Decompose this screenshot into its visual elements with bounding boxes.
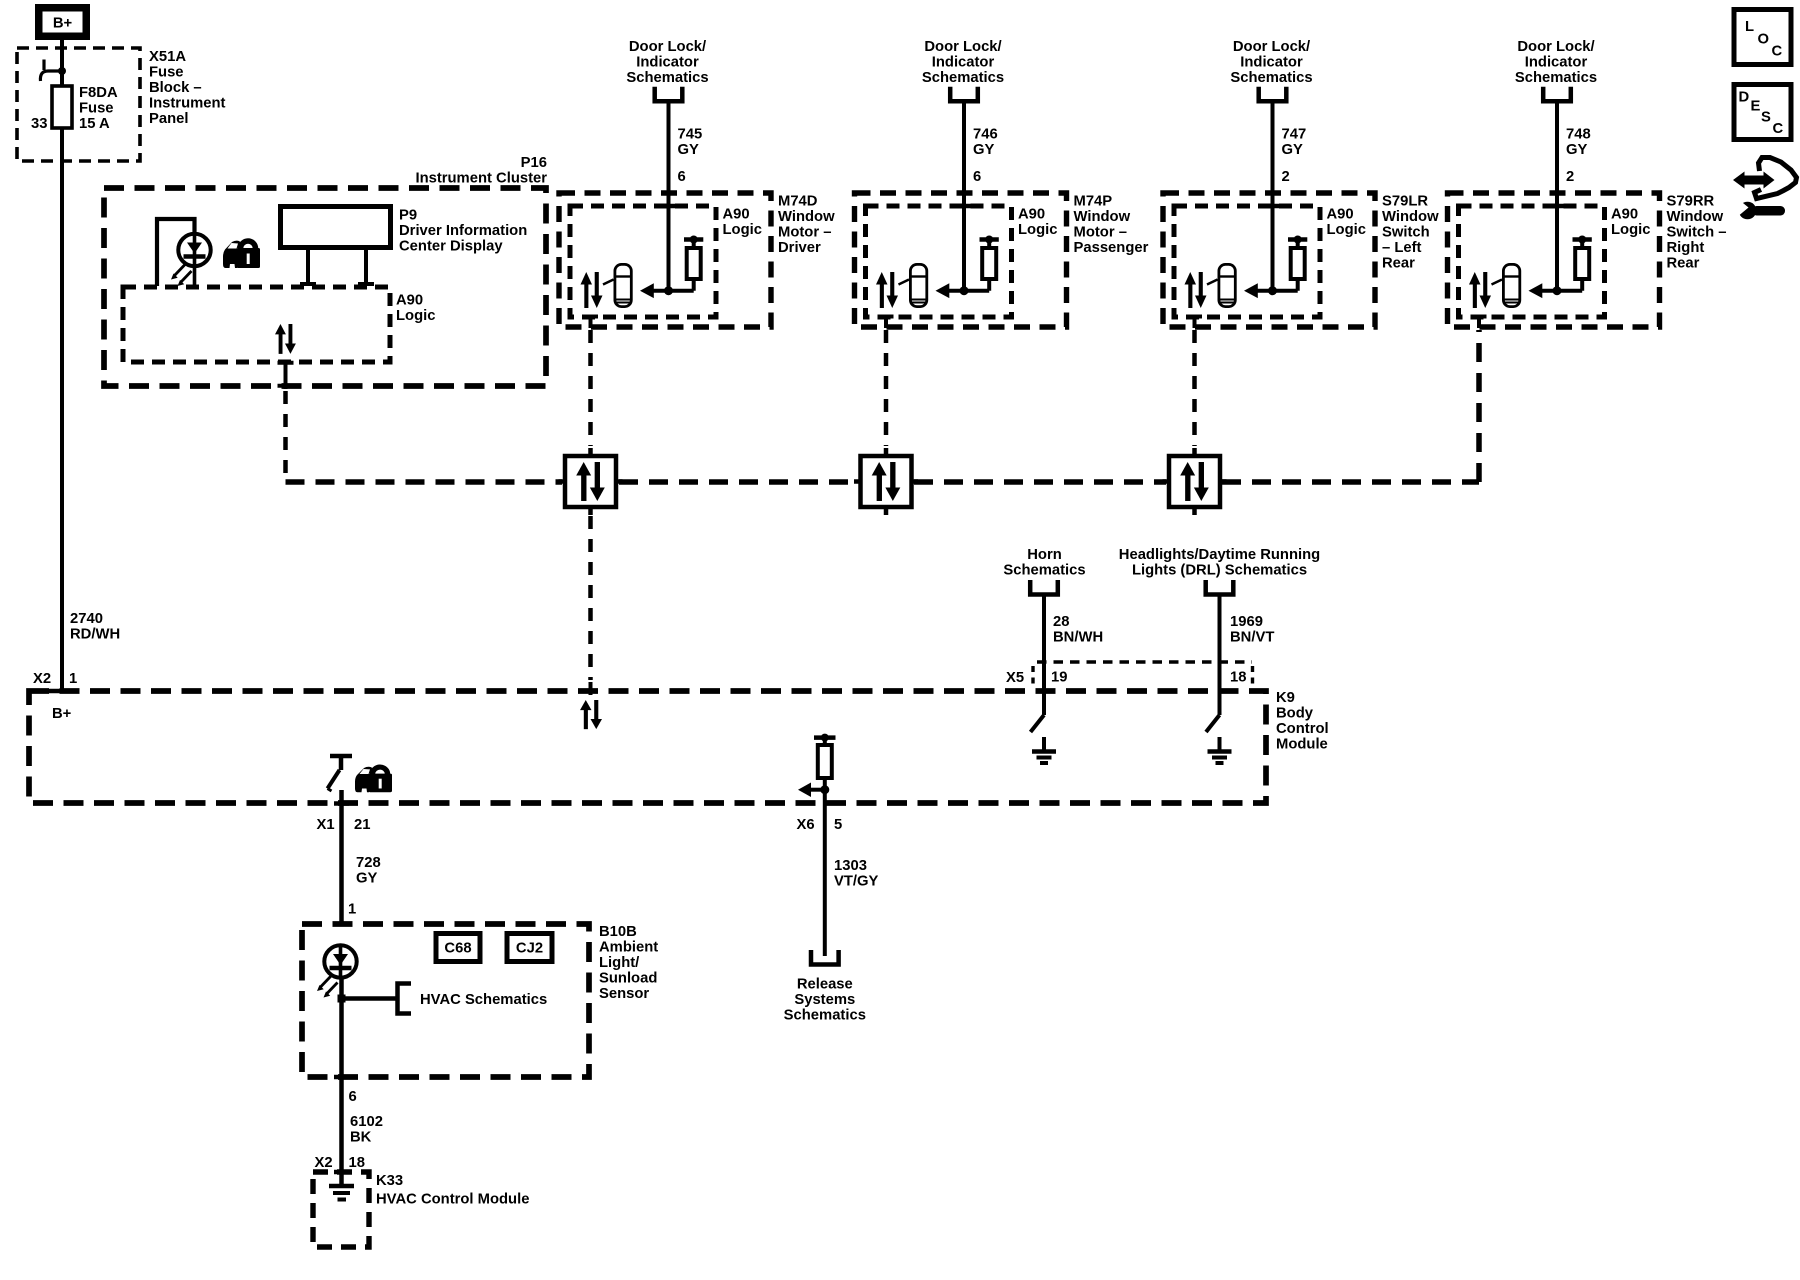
bus arrow box 1 <box>559 448 623 515</box>
svg-text:Indicator: Indicator <box>932 55 995 71</box>
HVAC schematics side-bracket <box>398 984 412 1014</box>
svg-text:2: 2 <box>1282 169 1290 185</box>
svg-text:C68: C68 <box>444 941 471 957</box>
svg-text:S79LR: S79LR <box>1382 194 1428 210</box>
stub wire through P16 boundary <box>284 362 288 389</box>
svg-text:Horn: Horn <box>1027 547 1062 563</box>
dashed net: P16 to serial data bus <box>283 391 288 479</box>
svg-text:Instrument: Instrument <box>149 96 226 112</box>
svg-text:Motor –: Motor – <box>1074 225 1127 241</box>
CJ2 RPO tag <box>507 934 552 962</box>
svg-text:Release: Release <box>797 977 853 993</box>
svg-text:Door Lock/: Door Lock/ <box>924 39 1001 55</box>
svg-text:21: 21 <box>354 817 370 833</box>
fuse block clip symbol <box>40 60 62 82</box>
svg-text:B10B: B10B <box>599 924 637 940</box>
svg-text:2740: 2740 <box>70 611 103 627</box>
wire: BCM X1-21 to sensor, circuit 728 <box>339 790 344 924</box>
sensor photodiode <box>317 945 357 997</box>
dashed drops from branch boxes <box>591 330 1195 446</box>
svg-text:Logic: Logic <box>723 222 762 238</box>
svg-text:D: D <box>1739 90 1750 106</box>
svg-text:28: 28 <box>1053 614 1069 630</box>
wire circuit 6102 to K33 <box>339 1077 344 1184</box>
svg-text:GY: GY <box>678 142 700 158</box>
svg-text:CJ2: CJ2 <box>516 941 543 957</box>
display P9 box <box>281 207 391 248</box>
svg-text:1969: 1969 <box>1230 614 1263 630</box>
svg-text:X2: X2 <box>33 671 51 687</box>
svg-text:GY: GY <box>1282 142 1304 158</box>
svg-text:Driver Information: Driver Information <box>399 223 527 239</box>
svg-text:Ambient: Ambient <box>599 940 658 956</box>
svg-text:Schematics: Schematics <box>626 70 708 86</box>
svg-text:Center Display: Center Display <box>399 239 503 255</box>
pin tick at BCM boundary <box>46 689 62 694</box>
svg-text:Indicator: Indicator <box>1240 55 1303 71</box>
svg-text:Schematics: Schematics <box>1515 70 1597 86</box>
svg-text:Systems: Systems <box>794 992 855 1008</box>
svg-text:Right: Right <box>1667 240 1705 256</box>
svg-text:Lights (DRL) Schematics: Lights (DRL) Schematics <box>1132 563 1307 579</box>
wire: B+ to fuse F8DA to BCM X2-1, circuit 2740 <box>60 40 64 691</box>
svg-text:A90: A90 <box>723 207 750 223</box>
inline connector X5 dotted line <box>1037 660 1252 663</box>
svg-text:B+: B+ <box>52 706 72 722</box>
photo sensor diode in cluster <box>171 234 211 286</box>
svg-text:728: 728 <box>356 855 381 871</box>
svg-text:Motor –: Motor – <box>778 225 831 241</box>
svg-text:Body: Body <box>1276 706 1314 722</box>
part locator icon: arrows, car, wrench <box>1733 158 1797 220</box>
svg-text:Switch: Switch <box>1382 225 1430 241</box>
instrument cluster P16 dashed box <box>104 188 546 386</box>
svg-text:A90: A90 <box>396 293 423 309</box>
svg-text:Rear: Rear <box>1667 256 1700 272</box>
svg-text:Rear: Rear <box>1382 256 1415 272</box>
release systems off-page bracket <box>811 950 839 965</box>
svg-text:Headlights/Daytime Running: Headlights/Daytime Running <box>1119 547 1320 563</box>
fuse block X51A dashed box <box>17 48 140 161</box>
svg-text:Fuse: Fuse <box>149 65 184 81</box>
svg-text:O: O <box>1758 32 1770 48</box>
svg-text:C: C <box>1772 44 1783 60</box>
svg-text:Schematics: Schematics <box>1003 563 1085 579</box>
svg-text:A90: A90 <box>1611 207 1638 223</box>
svg-text:C: C <box>1773 121 1784 137</box>
DRL driver switch inside BCM <box>1206 715 1220 732</box>
svg-text:Switch –: Switch – <box>1667 225 1727 241</box>
svg-text:– Left: – Left <box>1382 240 1422 256</box>
svg-text:GY: GY <box>1566 142 1588 158</box>
DESC legend box <box>1734 85 1791 140</box>
svg-text:RD/WH: RD/WH <box>70 627 120 643</box>
svg-text:Module: Module <box>1276 737 1328 753</box>
svg-text:Window: Window <box>1074 209 1131 225</box>
svg-text:6: 6 <box>678 169 686 185</box>
svg-text:BK: BK <box>350 1130 372 1146</box>
svg-text:P16: P16 <box>521 155 547 171</box>
svg-text:Fuse: Fuse <box>79 101 114 117</box>
svg-text:A90: A90 <box>1018 207 1045 223</box>
bus arrow box 2 <box>854 448 918 515</box>
svg-text:1: 1 <box>348 902 356 918</box>
horn driver switch inside BCM <box>1031 715 1045 732</box>
svg-text:Light/: Light/ <box>599 955 639 971</box>
svg-text:6: 6 <box>349 1089 357 1105</box>
svg-text:M74D: M74D <box>778 194 818 210</box>
svg-text:L: L <box>1745 19 1754 35</box>
HVAC control module K33 dashed box <box>313 1172 369 1247</box>
svg-text:33: 33 <box>31 116 47 132</box>
LOC legend box <box>1734 10 1791 65</box>
svg-text:BN/VT: BN/VT <box>1230 630 1274 646</box>
ground (DRL output) <box>1208 737 1232 763</box>
S79RR window switch right rear module graphics <box>1448 87 1660 328</box>
svg-text:Panel: Panel <box>149 111 188 127</box>
tick at B10B bottom <box>334 1075 349 1080</box>
svg-text:748: 748 <box>1566 127 1591 143</box>
M74D window motor driver module graphics <box>559 87 771 328</box>
dimmer switch lever icon in BCM <box>328 756 353 791</box>
svg-text:19: 19 <box>1051 670 1067 686</box>
svg-text:Logic: Logic <box>396 308 435 324</box>
svg-text:18: 18 <box>1230 670 1246 686</box>
svg-text:K9: K9 <box>1276 690 1295 706</box>
svg-text:S: S <box>1761 110 1771 126</box>
wire staple inside P16 <box>157 219 195 286</box>
svg-text:X51A: X51A <box>149 49 186 65</box>
svg-text:Window: Window <box>778 209 835 225</box>
svg-text:M74P: M74P <box>1074 194 1113 210</box>
S79LR window switch left rear module graphics <box>1163 87 1375 328</box>
ambient light sensor B10B dashed box <box>302 924 589 1077</box>
svg-text:X2: X2 <box>315 1155 333 1171</box>
svg-text:HVAC Schematics: HVAC Schematics <box>420 992 547 1008</box>
svg-text:E: E <box>1751 99 1761 115</box>
svg-text:Logic: Logic <box>1327 222 1366 238</box>
svg-text:X6: X6 <box>797 817 815 833</box>
svg-text:Indicator: Indicator <box>1525 55 1588 71</box>
svg-text:Schematics: Schematics <box>1230 70 1312 86</box>
svg-text:Door Lock/: Door Lock/ <box>1517 39 1594 55</box>
svg-text:K33: K33 <box>376 1173 403 1189</box>
fuse F8DA 15A <box>52 86 72 128</box>
svg-text:15 A: 15 A <box>79 116 110 132</box>
svg-text:X5: X5 <box>1006 670 1024 686</box>
svg-text:Logic: Logic <box>1018 222 1057 238</box>
wire: BCM X6-5 to release systems, circuit 1303 <box>823 790 827 956</box>
svg-text:Sensor: Sensor <box>599 986 649 1002</box>
svg-text:747: 747 <box>1282 127 1307 143</box>
M74P window motor passenger module graphics <box>855 87 1067 328</box>
svg-text:Driver: Driver <box>778 240 821 256</box>
svg-text:Window: Window <box>1667 209 1724 225</box>
A90 logic box in P16 <box>123 287 390 362</box>
wire to HVAC tap <box>339 978 344 1077</box>
up-down arrows at BCM bus input <box>580 700 602 729</box>
svg-text:S79RR: S79RR <box>1667 194 1715 210</box>
svg-text:Control: Control <box>1276 721 1329 737</box>
svg-text:P9: P9 <box>399 208 417 224</box>
dashed net: bus to BCM <box>588 516 593 680</box>
svg-text:Logic: Logic <box>1611 222 1650 238</box>
wire 28 BN/WH <box>1042 596 1046 715</box>
dashed serial data bus <box>286 330 1480 482</box>
svg-text:Schematics: Schematics <box>784 1008 866 1024</box>
C68 RPO tag <box>436 934 480 962</box>
svg-text:746: 746 <box>973 127 998 143</box>
battery feed B+ terminal <box>35 4 90 40</box>
svg-text:X1: X1 <box>317 817 335 833</box>
svg-text:2: 2 <box>1566 169 1574 185</box>
svg-text:HVAC Control Module: HVAC Control Module <box>376 1192 529 1208</box>
vehicle security indicator icon <box>223 241 260 268</box>
svg-text:Passenger: Passenger <box>1074 240 1149 256</box>
svg-text:Block –: Block – <box>149 80 202 96</box>
svg-text:1: 1 <box>69 671 77 687</box>
svg-text:Schematics: Schematics <box>922 70 1004 86</box>
svg-text:GY: GY <box>356 871 378 887</box>
svg-text:Door Lock/: Door Lock/ <box>629 39 706 55</box>
svg-text:Instrument Cluster: Instrument Cluster <box>415 171 547 187</box>
bus arrow box 3 <box>1163 448 1227 515</box>
svg-text:VT/GY: VT/GY <box>834 874 879 890</box>
svg-text:Sunload: Sunload <box>599 971 657 987</box>
svg-text:BN/WH: BN/WH <box>1053 630 1103 646</box>
ground (horn output) <box>1032 737 1056 763</box>
up-down arrows in A90 <box>275 324 296 354</box>
svg-text:Door Lock/: Door Lock/ <box>1233 39 1310 55</box>
svg-text:18: 18 <box>349 1155 365 1171</box>
svg-text:B+: B+ <box>53 16 73 32</box>
svg-text:745: 745 <box>678 127 703 143</box>
svg-text:GY: GY <box>973 142 995 158</box>
svg-text:Window: Window <box>1382 209 1439 225</box>
release actuator resistor in BCM <box>814 735 836 740</box>
svg-text:Indicator: Indicator <box>636 55 699 71</box>
svg-text:6: 6 <box>973 169 981 185</box>
drive arrow <box>810 788 825 792</box>
svg-text:5: 5 <box>834 817 842 833</box>
svg-text:6102: 6102 <box>350 1114 383 1130</box>
svg-text:F8DA: F8DA <box>79 85 118 101</box>
ground inside K33 <box>329 1186 354 1200</box>
svg-text:1303: 1303 <box>834 858 867 874</box>
body control module K9 dashed box <box>29 691 1266 803</box>
wire 1969 BN/VT <box>1218 596 1222 715</box>
vehicle security icon in BCM <box>355 767 392 792</box>
svg-text:A90: A90 <box>1327 207 1354 223</box>
